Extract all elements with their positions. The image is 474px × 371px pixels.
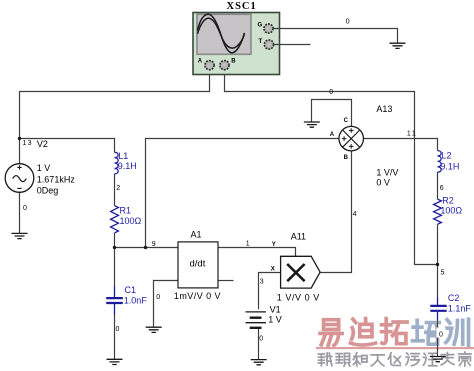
svg-text:C1: C1 — [125, 285, 137, 295]
svg-text:3: 3 — [260, 278, 264, 285]
迪 — [351, 319, 376, 345]
capacitor C2 — [430, 297, 446, 320]
svg-text:C: C — [344, 118, 349, 124]
summer A13 — [339, 126, 364, 151]
svg-text:A11: A11 — [291, 231, 306, 241]
watermark underline — [316, 347, 474, 349]
svg-text:A: A — [330, 132, 335, 138]
ground below C2 — [430, 357, 446, 362]
junction node 5 — [436, 263, 439, 266]
svg-text:1.1nF: 1.1nF — [448, 303, 472, 313]
svg-text:1 V: 1 V — [37, 163, 51, 173]
svg-text:R1: R1 — [120, 206, 132, 216]
inductor L1 — [115, 152, 119, 174]
svg-text:A1: A1 — [191, 229, 202, 239]
svg-text:R2: R2 — [442, 196, 454, 206]
wire C2 bottom to ground — [437, 319, 439, 356]
ground below A1 pin — [146, 327, 162, 332]
wire A13 C input to ground — [312, 100, 352, 127]
svg-text:L2: L2 — [442, 151, 452, 161]
svg-text:11: 11 — [407, 131, 417, 138]
svg-text:1.0nF: 1.0nF — [124, 296, 148, 306]
svg-text:V1: V1 — [270, 304, 281, 314]
wire A1 output to A11 Y input — [218, 248, 296, 257]
wire node13 to L1 — [20, 139, 115, 153]
svg-text:1mV/V 0 V: 1mV/V 0 V — [174, 291, 221, 301]
svg-text:X: X — [271, 266, 275, 272]
svg-text:1: 1 — [246, 241, 250, 248]
wire L2 to R2 — [437, 172, 439, 199]
svg-text:100Ω: 100Ω — [120, 216, 142, 226]
svg-text:0: 0 — [156, 294, 160, 301]
svg-text:9.1H: 9.1H — [118, 161, 137, 171]
svg-text:Y: Y — [272, 242, 276, 248]
svg-text:C2: C2 — [448, 293, 460, 303]
wire scope T stub — [274, 44, 311, 46]
oscilloscope knob B — [220, 59, 236, 70]
oscilloscope knob T — [259, 39, 274, 49]
battery V1 — [246, 312, 267, 328]
svg-text:T: T — [259, 39, 263, 45]
svg-text:0: 0 — [23, 205, 27, 212]
svg-text:2: 2 — [116, 185, 120, 192]
ground below C1 — [107, 359, 123, 364]
svg-text:0: 0 — [116, 326, 120, 333]
svg-text:1.671kHz: 1.671kHz — [37, 174, 76, 184]
A1 block d/dt — [178, 242, 218, 288]
svg-text:0Deg: 0Deg — [37, 186, 59, 196]
wire node9 horizontal to A1 input — [115, 247, 179, 249]
ground below V2 — [12, 233, 28, 238]
svg-text:0: 0 — [329, 89, 333, 96]
wire scope G to ground — [273, 29, 397, 44]
svg-text:A13: A13 — [376, 104, 392, 114]
wire A11 X input to V1 — [259, 273, 281, 310]
svg-text:XSC1: XSC1 — [227, 1, 257, 12]
watermark logo 易迪拓培训 — [320, 319, 468, 346]
svg-text:V2: V2 — [37, 139, 48, 149]
svg-text:4: 4 — [353, 211, 357, 218]
svg-text:B: B — [344, 155, 349, 161]
resistor R2 — [434, 199, 442, 224]
wire A13 output to L2 — [364, 139, 438, 151]
svg-text:1 V: 1 V — [268, 315, 282, 325]
wire long horizontal to A13 A input — [146, 139, 339, 248]
capacitor C1 — [106, 286, 123, 315]
oscilloscope knob G — [258, 23, 274, 33]
svg-text:6: 6 — [440, 185, 444, 192]
junction node 9 left — [113, 246, 116, 249]
wire scope B to node5 — [225, 75, 438, 265]
label node 0 below C2 — [437, 328, 446, 338]
oscilloscope XSC1 body — [193, 13, 280, 75]
wire V2 bottom to ground — [19, 192, 21, 233]
resistor R1 — [111, 206, 119, 233]
wire R2 down through node5 to C2 — [437, 224, 439, 297]
svg-text:5: 5 — [441, 269, 445, 276]
训 — [446, 319, 469, 345]
svg-text:100Ω: 100Ω — [440, 206, 462, 216]
wire V1 to ground — [258, 328, 260, 359]
wire node9 down to C1 — [114, 248, 116, 287]
ground at A13 C input — [304, 122, 320, 127]
svg-text:1 V/V 0 V: 1 V/V 0 V — [277, 292, 320, 302]
易 — [320, 320, 342, 346]
svg-text:13: 13 — [23, 140, 33, 147]
multiplier A11 — [281, 256, 321, 288]
oscilloscope screen with traces — [197, 14, 251, 54]
watermark subtitle 射频和天线设计专家 — [318, 352, 471, 366]
svg-text:1 V/V: 1 V/V — [376, 168, 398, 178]
wire A1 lower-left pin to ground — [154, 281, 179, 327]
培 — [413, 320, 440, 344]
junction node 9 right — [144, 246, 147, 249]
svg-text:d/dt: d/dt — [190, 258, 206, 269]
svg-text:0 V: 0 V — [376, 178, 390, 188]
svg-text:B: B — [231, 59, 236, 65]
svg-text:0: 0 — [346, 18, 350, 25]
svg-text:9.1H: 9.1H — [440, 161, 459, 171]
wire C1 bottom to ground — [114, 314, 116, 359]
svg-text:0: 0 — [259, 336, 263, 343]
svg-text:0: 0 — [439, 331, 443, 338]
oscilloscope knob A — [198, 59, 214, 70]
svg-text:L1: L1 — [118, 151, 128, 161]
svg-text:G: G — [258, 23, 263, 29]
inductor L2 — [438, 151, 442, 173]
wire L1 to R1 — [114, 174, 116, 206]
AC source V2 — [5, 164, 34, 193]
wire A1 lower-right stub — [218, 280, 234, 282]
svg-text:A: A — [198, 59, 203, 65]
拓 — [382, 319, 408, 344]
wire A11 output to A13 B input — [320, 151, 352, 273]
wire R1 to node9 — [114, 233, 116, 248]
junction node 13 — [18, 137, 21, 140]
ground below V1 — [251, 360, 267, 365]
svg-text:9: 9 — [152, 241, 156, 248]
wire scope A to V2 top — [20, 75, 210, 165]
ground at scope G wire — [390, 43, 406, 48]
